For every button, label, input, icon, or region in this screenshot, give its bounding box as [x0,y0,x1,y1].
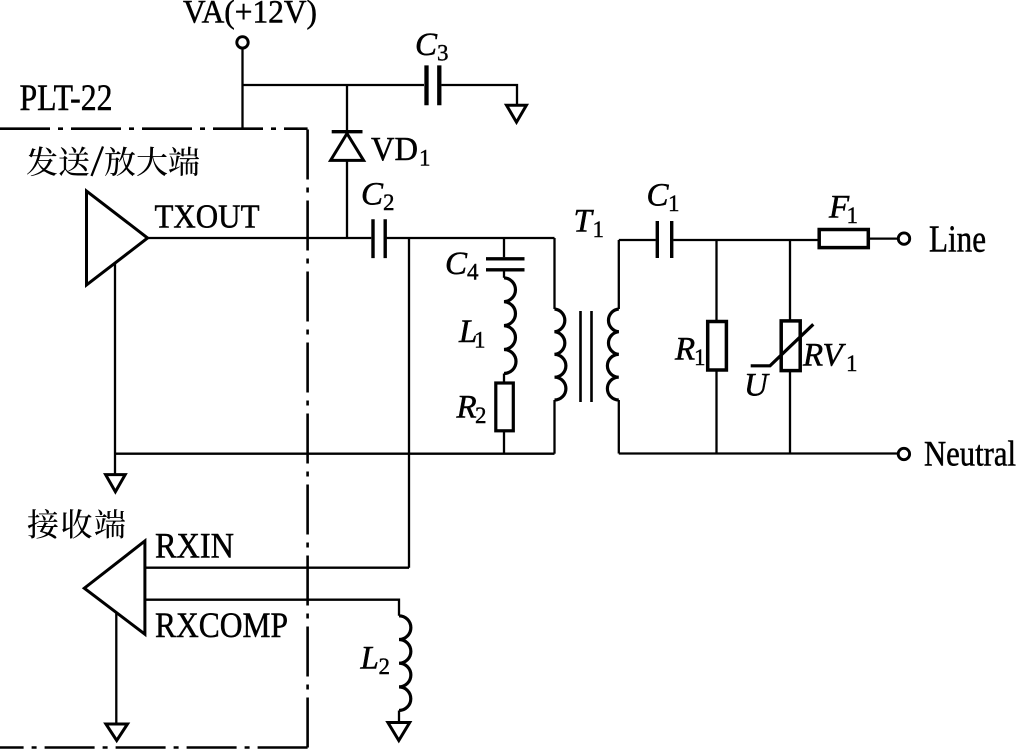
wire RV1 branch lower [789,371,791,454]
svg-text:R: R [456,390,477,426]
svg-text:RXIN: RXIN [155,526,234,566]
fuse F1 [819,230,868,248]
svg-text:VA(+12V): VA(+12V) [183,0,317,31]
svg-text:2: 2 [475,403,487,428]
ground (TX amp) [106,475,126,492]
wire RX amp lower terminal to ground [115,614,117,724]
inductor L2 [399,616,411,711]
svg-text:C: C [415,27,438,63]
wire TXOUT segment left of C2 [148,237,372,239]
svg-text:U: U [744,368,770,404]
svg-text:1: 1 [694,345,706,370]
svg-text:C: C [445,246,468,282]
svg-text:R: R [674,332,695,368]
svg-text:3: 3 [437,40,449,65]
capacitor C2 [373,219,385,258]
resistor R1 [708,322,727,371]
wire transformer primary top [553,238,555,309]
varistor RV1 body [781,321,800,371]
wire transformer secondary top [618,240,620,309]
wire bottom rail (amp ground to transformer) [115,453,555,455]
svg-text:VD: VD [371,131,418,168]
ground (L2) [388,723,410,741]
wire C3 right to ground [442,85,518,105]
svg-text:4: 4 [467,260,479,285]
diode VD1 [331,132,364,161]
wire F1 to Line terminal [868,237,897,239]
ground (C3) [507,105,527,122]
svg-text:Line: Line [929,219,986,261]
transformer T1 primary winding [555,309,566,400]
svg-text:RXCOMP: RXCOMP [155,605,288,645]
wire C4 branch top [503,238,505,257]
svg-text:TXOUT: TXOUT [155,199,260,236]
label 接收端 (receive end) [28,509,125,539]
svg-text:1: 1 [474,328,486,353]
wire R1 branch lower [715,370,717,454]
wire L2 to ground [398,711,400,724]
svg-text:Neutral: Neutral [924,434,1016,474]
wire RXIN [145,567,409,569]
wire secondary top to C1 [619,239,656,241]
resistor R2 [496,383,514,431]
svg-text:C: C [647,178,670,214]
capacitor C1 [657,221,671,258]
svg-text:1: 1 [593,217,605,242]
transformer T1 secondary winding [607,309,618,400]
terminal VA circle [237,37,248,48]
op-amp TX buffer triangle [87,191,148,285]
wire VA supply vertical [241,49,243,129]
wire VD1 anode stub [346,85,348,131]
wire R1 branch upper [715,240,717,322]
svg-text:C: C [361,177,384,213]
svg-text:1: 1 [419,146,431,171]
svg-text:1: 1 [846,351,858,376]
label 发送/放大端 (transmit/amplify end) [27,146,199,176]
wire TX amp lower terminal down [114,263,116,475]
terminal Neutral circle [898,448,909,459]
capacitor C4 [486,259,525,270]
varistor RV1 diagonal stroke [751,324,814,366]
wire transformer primary bottom [553,400,555,454]
wire TXOUT segment C2 to transformer [387,237,555,239]
inductor L1 [504,278,516,374]
ground (RX amp) [106,724,128,741]
svg-text:L: L [360,641,379,677]
svg-text:1: 1 [668,191,680,216]
op-amp RX buffer triangle [84,541,145,634]
wire VD1 cathode to TXOUT [346,160,348,238]
wire R2 to bottom rail [503,431,505,454]
terminal Line circle [898,233,909,244]
capacitor C3 [427,65,440,105]
wire Neutral rail [619,452,897,454]
wire node C2-right down to RXIN [408,238,410,568]
svg-text:2: 2 [379,654,391,679]
wire C4 to L1 [503,272,505,278]
svg-text:2: 2 [383,190,395,215]
wire VA rail horizontal to C3 [243,84,425,86]
chip boundary PLT-22 dash-dot top [0,127,308,130]
wire RV1 branch upper [789,240,791,321]
svg-text:PLT-22: PLT-22 [20,78,113,119]
wire L1 to R2 [503,374,505,384]
svg-text:1: 1 [847,203,859,228]
svg-text:RV: RV [802,338,847,374]
chip boundary PLT-22 dash-dot bottom [0,746,308,749]
wire C1 to F1 [673,239,819,241]
wire transformer secondary bottom [618,400,620,454]
wire RXCOMP to L2 [145,600,399,616]
transformer T1 core [581,311,592,402]
chip boundary PLT-22 dash-dot right [306,129,309,748]
svg-text:T: T [574,204,595,240]
